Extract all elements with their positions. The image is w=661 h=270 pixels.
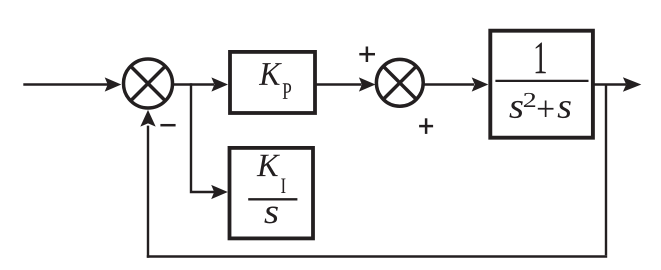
label s denominator of KI/s: [264, 207, 277, 224]
wire KP to summer2: [315, 83, 362, 85]
arrowhead system output: [623, 77, 641, 92]
summing junction 1: [124, 59, 173, 108]
wire input: [23, 83, 108, 85]
label plus of s^2+s: [538, 100, 554, 117]
label subscript P of KP: [283, 83, 291, 99]
arrowhead into summer1: [105, 77, 122, 91]
summing junction 2: [376, 59, 423, 106]
wire summer1 to block KP: [173, 83, 215, 85]
wire branch node to block KI: [191, 83, 215, 192]
label subscript I of KI: [281, 178, 285, 193]
block KP box: [230, 52, 315, 113]
wire summer2 to plant: [424, 83, 475, 85]
wire feedback right vertical: [605, 85, 607, 256]
fraction bar of KI/s: [248, 198, 297, 200]
arrowhead into block KP: [211, 77, 228, 91]
block KI box: [230, 148, 314, 239]
arrowhead into block KI: [211, 185, 228, 199]
plus sign above-left of summer2: [359, 47, 375, 63]
label superscript 2 of s^2+s: [524, 93, 535, 107]
label K of KP: [259, 63, 282, 85]
label K of KI: [257, 155, 280, 176]
plus sign below summer2: [419, 118, 433, 134]
label 1 numerator of plant: [536, 43, 546, 74]
wire feedback bottom horizontal: [147, 255, 607, 257]
arrowhead into plant: [472, 77, 489, 91]
label second s of s^2+s: [558, 101, 571, 118]
fraction bar of plant: [495, 80, 588, 82]
arrowhead into summer2: [359, 77, 376, 91]
block plant box: [490, 31, 593, 138]
wire feedback left vertical: [147, 126, 149, 258]
wire plant output: [594, 83, 626, 85]
arrowhead feedback into summer1 bottom: [140, 110, 155, 127]
minus sign at summer1: [160, 124, 175, 127]
label s of s^2+s: [509, 101, 522, 118]
